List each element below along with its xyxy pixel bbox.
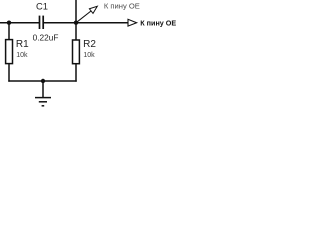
off-page connector arrow diagonal (to pin OE) [77, 6, 97, 21]
node junction dot left (R1 tap) [7, 21, 11, 25]
svg-text:C1: C1 [36, 1, 48, 12]
svg-text:10k: 10k [83, 52, 95, 59]
svg-text:R2: R2 [83, 39, 96, 50]
wire R1 bottom lead [8, 64, 10, 82]
wire R2 top lead [75, 23, 77, 40]
wire top rail left segment [0, 22, 39, 24]
wire vertical stub to top edge [75, 0, 77, 23]
capacitor C1 [40, 16, 44, 29]
ground [35, 81, 51, 106]
svg-text:К пину ОЕ: К пину ОЕ [140, 18, 176, 27]
svg-text:К пину ОЕ: К пину ОЕ [104, 2, 140, 11]
wire bottom rail [8, 80, 76, 82]
node junction dot ground tap [41, 79, 45, 83]
resistor R1 [6, 40, 13, 64]
node junction dot center (R2 / arrows tap) [74, 21, 78, 25]
off-page connector arrow right (to pin OE) [128, 19, 137, 26]
resistor R2 [73, 40, 80, 64]
svg-text:R1: R1 [16, 39, 29, 50]
wire R1 top lead [8, 23, 10, 40]
wire R2 bottom lead [75, 64, 77, 82]
svg-text:0.22uF: 0.22uF [33, 32, 59, 42]
svg-text:10k: 10k [16, 52, 28, 59]
wire top rail right segment [44, 22, 128, 24]
